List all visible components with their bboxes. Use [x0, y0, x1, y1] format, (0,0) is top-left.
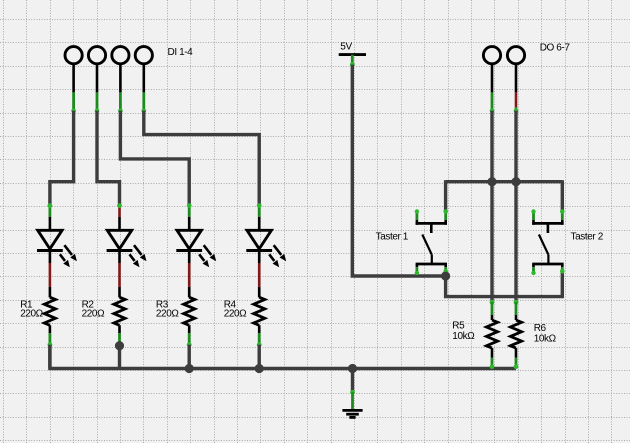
svg-text:220Ω: 220Ω — [156, 308, 179, 319]
svg-text:5V: 5V — [340, 42, 352, 53]
svg-text:220Ω: 220Ω — [82, 308, 105, 319]
svg-text:Taster 1: Taster 1 — [376, 231, 409, 242]
svg-text:10kΩ: 10kΩ — [452, 331, 475, 342]
svg-text:Taster 2: Taster 2 — [571, 231, 604, 242]
svg-text:R5: R5 — [452, 320, 465, 331]
svg-text:DI 1-4: DI 1-4 — [168, 47, 194, 58]
svg-text:DO 6-7: DO 6-7 — [540, 43, 571, 54]
svg-text:220Ω: 220Ω — [20, 308, 43, 319]
svg-text:10kΩ: 10kΩ — [534, 334, 557, 345]
svg-text:220Ω: 220Ω — [224, 308, 247, 319]
